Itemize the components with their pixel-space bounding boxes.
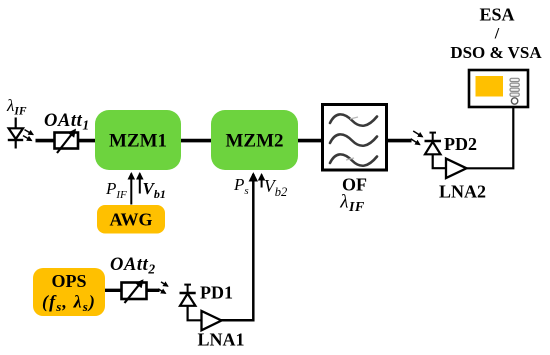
svg-text:PD2: PD2 (444, 134, 477, 154)
optical filter OF (323, 105, 387, 216)
source OPS (33, 268, 105, 316)
svg-text:Ps: Ps (233, 175, 249, 197)
svg-text:Vb2: Vb2 (264, 176, 287, 199)
svg-text:ESA: ESA (479, 5, 514, 25)
arrow P_IF from AWG to MZM1 (130, 174, 132, 205)
svg-text:(fs, λs): (fs, λs) (42, 292, 96, 315)
light arrows into PD1 (158, 282, 168, 293)
svg-text:OPS: OPS (51, 271, 86, 291)
amplifier LNA1 (197, 311, 244, 350)
svg-text:PD1: PD1 (200, 283, 233, 303)
wire MZM1 to MZM2 (181, 139, 211, 143)
svg-text:OAtt1: OAtt1 (44, 111, 90, 133)
modulator MZM2 (211, 110, 298, 170)
wire LNA2 to instrument (467, 106, 514, 168)
arrow V_b2 to MZM2 (261, 175, 263, 188)
svg-text:LNA2: LNA2 (439, 182, 486, 202)
wire OF to PD2 (387, 139, 412, 143)
attenuator OAtt1 (44, 111, 90, 153)
attenuator OAtt2 (110, 255, 156, 303)
svg-text:λIF: λIF (339, 192, 365, 216)
photodiode PD2 (425, 133, 478, 169)
amplifier LNA2 (439, 159, 486, 202)
svg-text:/: / (494, 26, 500, 43)
wire OAtt2 out (147, 289, 160, 292)
arrow V_b1 to MZM1 (139, 174, 141, 194)
light emission arrows from laser (23, 130, 33, 141)
svg-text:AWG: AWG (109, 210, 152, 230)
svg-text:MZM2: MZM2 (225, 131, 283, 152)
wire laser to OAtt1 (36, 139, 57, 143)
svg-text:Vb1: Vb1 (143, 179, 166, 201)
svg-text:MZM1: MZM1 (109, 131, 167, 152)
light arrows into PD2 (411, 131, 423, 145)
svg-text:PIF: PIF (105, 179, 127, 201)
svg-text:DSO & VSA: DSO & VSA (450, 43, 542, 62)
svg-text:OAtt2: OAtt2 (110, 255, 156, 277)
svg-text:LNA1: LNA1 (197, 330, 244, 350)
wire OAtt1 to MZM1 (78, 139, 96, 143)
photodiode PD1 (180, 283, 234, 321)
wire OPS to OAtt2 (105, 289, 122, 292)
wire LNA1 to MZM2 (P_s feed) (221, 174, 254, 320)
svg-text:λIF: λIF (6, 96, 27, 118)
wire MZM2 to OF (298, 139, 323, 143)
generator AWG (97, 205, 165, 234)
laser source LD (lambda_IF) (6, 96, 27, 149)
modulator MZM1 (95, 110, 181, 170)
instrument ESA / DSO &amp; VSA (450, 5, 542, 108)
